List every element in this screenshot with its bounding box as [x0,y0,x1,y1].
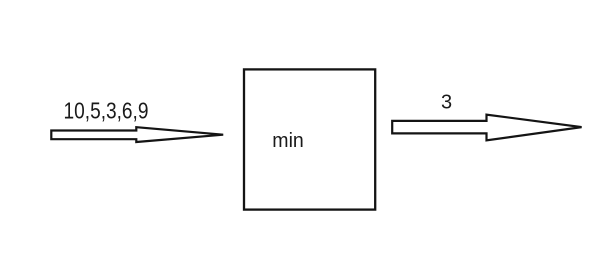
process box "min" [244,69,375,209]
svg-text:3: 3 [441,91,452,113]
svg-text:10,5,3,6,9: 10,5,3,6,9 [64,98,149,124]
output arrow [392,115,581,141]
input arrow [51,127,223,142]
svg-text:min: min [272,130,304,152]
